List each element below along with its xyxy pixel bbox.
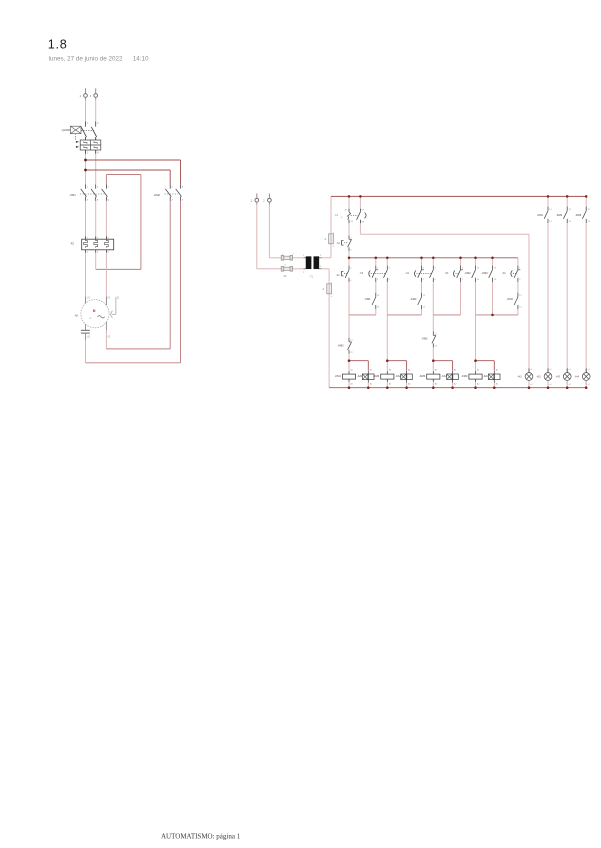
wire L2 to coil KM2 bbox=[386, 282, 388, 371]
contactor KM1 bbox=[69, 184, 109, 201]
aux block KA2 bbox=[387, 361, 412, 386]
lamp H3 bbox=[556, 368, 572, 385]
lamp H1 bbox=[518, 368, 534, 385]
start button S2 bbox=[336, 258, 353, 282]
node dots top bus bbox=[348, 195, 588, 198]
stop button S1 bbox=[336, 223, 352, 251]
svg-text:-KM1: -KM1 bbox=[69, 193, 76, 197]
svg-text:-H1: -H1 bbox=[518, 375, 523, 379]
svg-text:-KM3: -KM3 bbox=[481, 271, 488, 275]
wire secondary top riser bbox=[322, 196, 331, 257]
wire to coil KM1 bbox=[348, 354, 350, 371]
coil KM3 bbox=[419, 368, 440, 385]
wire join branch2 bbox=[387, 309, 421, 315]
svg-text:-H3: -H3 bbox=[556, 375, 561, 379]
svg-text:-KM1: -KM1 bbox=[364, 297, 371, 301]
fuse F3 bbox=[281, 254, 294, 261]
lamp H4 bbox=[575, 368, 591, 385]
wires KM1 to relay bbox=[86, 201, 107, 237]
wire lamp to bus bbox=[585, 381, 587, 388]
svg-text:-KA3: -KA3 bbox=[441, 375, 447, 378]
svg-text:-KA1: -KA1 bbox=[357, 375, 363, 378]
wire lamp column bbox=[547, 223, 549, 372]
wire C4a to coil KM4 bbox=[475, 315, 477, 371]
wire junction feed KM2 pole2 bbox=[86, 160, 181, 184]
fuse F6 bbox=[322, 283, 333, 298]
svg-text:-KM2: -KM2 bbox=[337, 344, 344, 348]
button S6 bbox=[502, 258, 521, 282]
wire L3 to coil KM3 bbox=[432, 347, 434, 370]
wire V2 return bbox=[106, 331, 170, 349]
svg-text:-KM1: -KM1 bbox=[335, 374, 342, 378]
wire C4b down bbox=[492, 282, 494, 315]
wire relay to motor U1 bbox=[85, 253, 87, 303]
node junction A1 bbox=[84, 159, 87, 162]
interlock contact branch3 bbox=[421, 282, 437, 347]
svg-text:-KM2: -KM2 bbox=[154, 193, 161, 197]
svg-text:-H4: -H4 bbox=[575, 375, 580, 379]
svg-text:-KA4: -KA4 bbox=[483, 375, 489, 378]
svg-text:-S6: -S6 bbox=[502, 272, 506, 275]
svg-text:-S1: -S1 bbox=[336, 242, 340, 245]
coil KM1 bbox=[335, 368, 356, 385]
interlock contact KM2 branch1 bbox=[337, 338, 353, 354]
aux block KA1 bbox=[349, 361, 374, 386]
date line bbox=[49, 56, 149, 63]
wire join branch4 bbox=[476, 309, 518, 315]
double button S4 bbox=[405, 258, 436, 282]
coil KM4 bbox=[461, 368, 482, 385]
svg-text:-KM2: -KM2 bbox=[556, 213, 563, 217]
wire bottom bus bbox=[329, 387, 586, 389]
wire secondary bottom drop bbox=[322, 269, 330, 388]
lamp H2 bbox=[537, 368, 553, 385]
title 1.8 bbox=[48, 37, 68, 51]
svg-text:-KM2: -KM2 bbox=[410, 297, 417, 301]
contact KM2 branch4 bbox=[464, 258, 480, 282]
svg-text:-S4: -S4 bbox=[405, 272, 409, 275]
wire L1 drop bbox=[85, 100, 87, 184]
wire join branch1 bbox=[349, 309, 376, 315]
holding contact KM1 bbox=[364, 282, 380, 309]
wire lamp column bbox=[585, 223, 587, 372]
motor M bbox=[75, 296, 121, 330]
node dots bottom bus bbox=[348, 386, 588, 389]
fuse F4 bbox=[281, 265, 292, 278]
node dots control bus bbox=[348, 257, 494, 260]
wire primary upper bbox=[269, 205, 303, 258]
thermal relay F2 bbox=[70, 236, 114, 253]
svg-text:14:10: 14:10 bbox=[133, 56, 149, 63]
svg-text:-KM4: -KM4 bbox=[461, 374, 468, 378]
wire lamp to bus bbox=[547, 381, 549, 388]
wire L2 drop bbox=[95, 100, 97, 184]
wire lamp to bus bbox=[566, 381, 568, 388]
svg-text:M: M bbox=[93, 309, 96, 313]
svg-text:-KM1: -KM1 bbox=[537, 213, 544, 217]
terminal N2 bbox=[263, 193, 271, 204]
svg-text:lunes, 27 de junio de 2022: lunes, 27 de junio de 2022 bbox=[49, 56, 123, 63]
wire control bus bbox=[349, 257, 518, 259]
coil KM2 bbox=[373, 368, 394, 385]
node dots coil links bbox=[348, 359, 477, 362]
wire relay to motor V1 bbox=[105, 253, 107, 305]
lamp feed contact KM3 bbox=[575, 196, 591, 223]
footer bbox=[161, 833, 241, 841]
terminal L2 bbox=[90, 88, 98, 100]
wire S5 to join bbox=[433, 282, 460, 315]
svg-text:AUTOMATISMO: página 1: AUTOMATISMO: página 1 bbox=[161, 833, 241, 841]
wire relay pole2 down bbox=[95, 253, 97, 270]
svg-text:-KM3: -KM3 bbox=[419, 374, 426, 378]
svg-text:-KA2: -KA2 bbox=[395, 375, 401, 378]
node dots join row bbox=[491, 314, 494, 317]
svg-text:-KM2: -KM2 bbox=[421, 336, 428, 340]
wire lamp to bus bbox=[528, 381, 530, 388]
svg-text:-Q1: -Q1 bbox=[61, 128, 66, 132]
wire S1 to bus bbox=[348, 251, 350, 258]
svg-text:-KM2: -KM2 bbox=[373, 374, 380, 378]
double button S3 bbox=[359, 258, 390, 282]
wire U2 return bbox=[86, 340, 181, 363]
aux block KA4 bbox=[476, 361, 501, 386]
svg-text:-H2: -H2 bbox=[537, 375, 542, 379]
lamp feed contact KM2 bbox=[556, 196, 572, 223]
relay contact F1 bbox=[335, 196, 366, 223]
svg-text:-S5: -S5 bbox=[445, 272, 449, 275]
svg-text:-S3: -S3 bbox=[359, 272, 363, 275]
svg-text:1.8: 1.8 bbox=[48, 37, 68, 51]
svg-text:-KM4: -KM4 bbox=[507, 297, 514, 301]
wire F98 to lamp column bbox=[360, 223, 529, 372]
wire top bus bbox=[331, 195, 586, 197]
aux block KA3 bbox=[433, 361, 458, 386]
svg-text:-S2: -S2 bbox=[336, 274, 340, 277]
terminal L1 bbox=[80, 88, 88, 100]
transformer T1 bbox=[303, 255, 322, 279]
breaker Q1 bbox=[61, 122, 101, 155]
node junction A2 bbox=[84, 169, 87, 172]
lamp feed contact KM1 bbox=[537, 196, 553, 223]
contactor KM2 bbox=[154, 184, 184, 201]
wire primary lower bbox=[257, 205, 304, 269]
svg-text:-KM3: -KM3 bbox=[575, 213, 582, 217]
wires coils to bottom bus bbox=[349, 383, 494, 388]
wire S2 down bbox=[348, 282, 350, 338]
button S5 bbox=[445, 258, 464, 282]
svg-text:-F2: -F2 bbox=[70, 241, 75, 245]
terminal N1 bbox=[251, 193, 259, 204]
wire junction feed KM2 pole1 bbox=[86, 170, 171, 184]
contact KM3 branch4 bbox=[481, 258, 497, 282]
svg-text:-KM2: -KM2 bbox=[464, 271, 471, 275]
wire KM2 pole1 down bbox=[169, 201, 171, 349]
wire C4a down bbox=[475, 282, 477, 315]
holding contact KM4 bbox=[507, 282, 523, 309]
fuse F5 bbox=[324, 233, 335, 248]
wire KM2 pole2 down bbox=[180, 201, 182, 363]
holding contact KM2 bbox=[410, 282, 426, 309]
wire lamp column bbox=[566, 223, 568, 372]
wire inner loop bbox=[96, 175, 141, 270]
capacitor C1 bbox=[81, 330, 111, 340]
